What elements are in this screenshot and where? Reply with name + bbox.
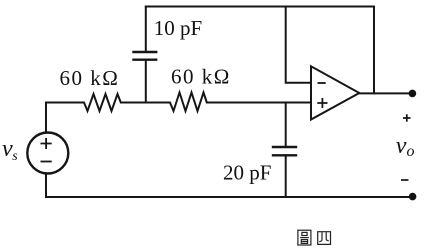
svg-text:60 kΩ: 60 kΩ <box>60 66 120 90</box>
svg-text:20 pF: 20 pF <box>223 161 271 185</box>
svg-text:10 pF: 10 pF <box>154 16 202 40</box>
svg-text:60 kΩ: 60 kΩ <box>171 65 231 89</box>
svg-text:v: v <box>396 133 407 159</box>
svg-text:o: o <box>407 143 415 160</box>
svg-text:s: s <box>12 149 18 164</box>
